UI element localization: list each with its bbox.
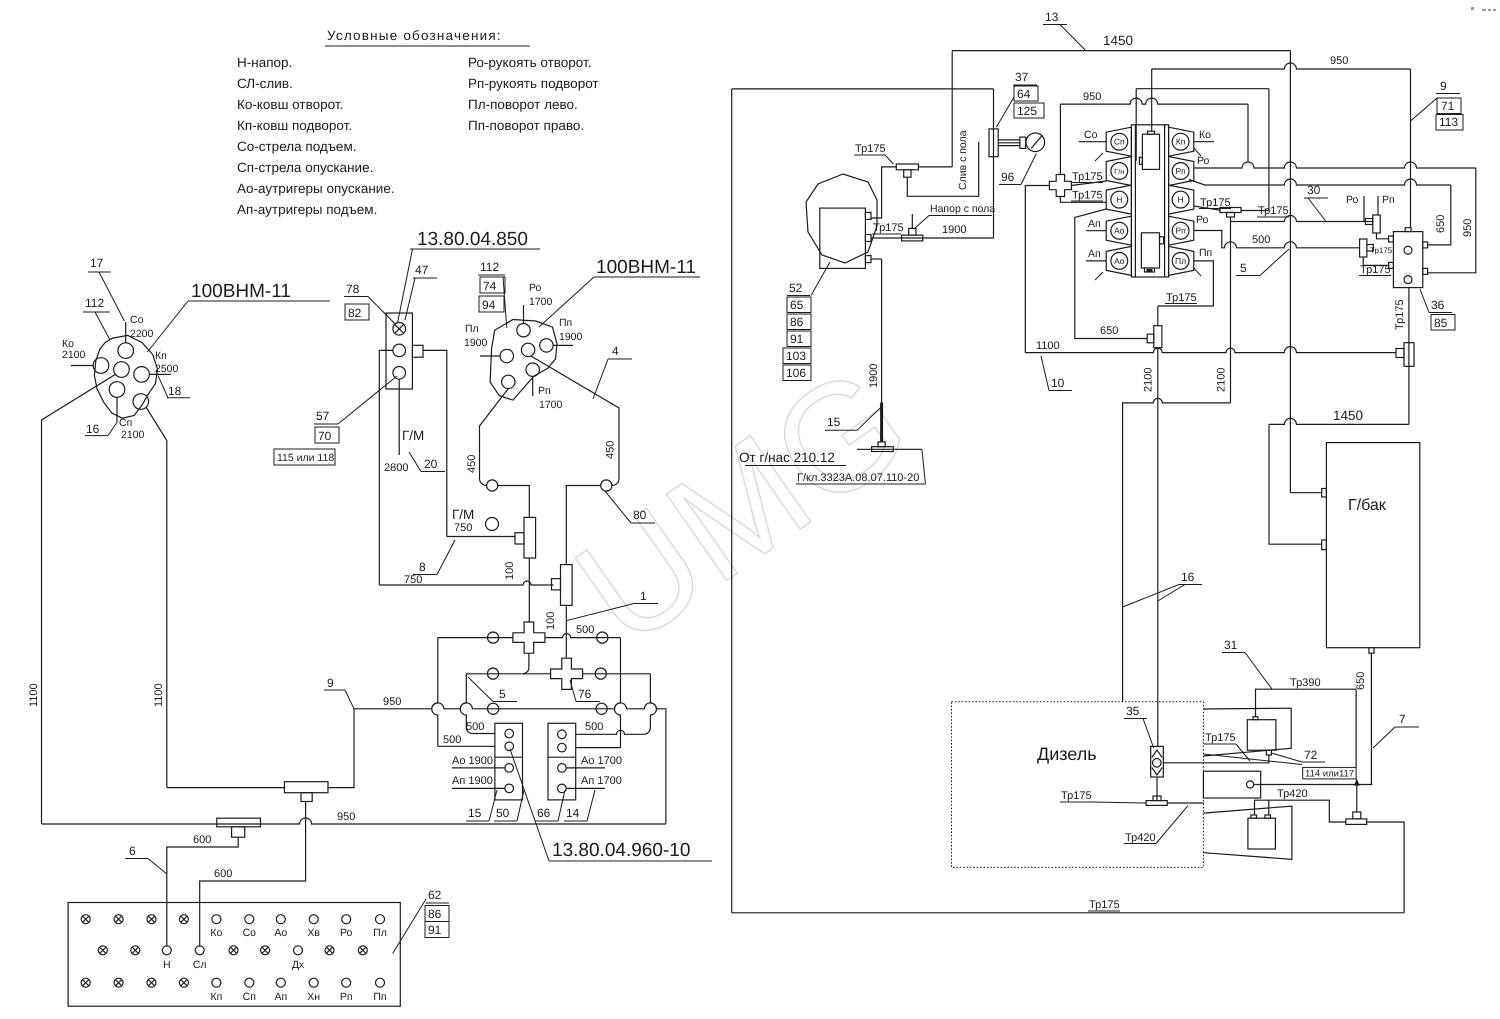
wire T4 stem to H <box>167 837 238 947</box>
svg-text:16: 16 <box>1181 570 1195 584</box>
CENTRAL MANIFOLD 100BHM <box>1025 55 1476 746</box>
wire tee to block left-low tab <box>1363 257 1388 265</box>
wire tee sliv stem U to lever <box>907 142 978 196</box>
svg-text:37: 37 <box>1015 70 1029 84</box>
valve output wire to radiator1 <box>1163 755 1269 763</box>
svg-text:Тр175: Тр175 <box>1072 171 1103 183</box>
wire От г/нас line <box>857 448 922 450</box>
wire Ао1900 <box>452 767 505 769</box>
stub Рп to tee <box>1377 196 1379 215</box>
svg-text:100: 100 <box>504 562 516 580</box>
wire tank top feed <box>1290 492 1321 494</box>
tee Тр175 sliv <box>896 164 918 170</box>
wire T1 down to cross1 <box>528 558 530 622</box>
svg-text:62: 62 <box>428 888 442 902</box>
svg-text:Ро: Ро <box>529 282 542 294</box>
watermark UMG <box>547 333 937 678</box>
panel row1 crossed sockets <box>81 915 90 924</box>
svg-text:36: 36 <box>1431 298 1445 312</box>
wire Ап1700 <box>566 787 605 789</box>
svg-text:Ап: Ап <box>274 991 287 1003</box>
wire 221.5-line Тр175 <box>1231 216 1373 222</box>
svg-text:Сп: Сп <box>243 991 256 1003</box>
valve crossed port <box>393 323 406 336</box>
manifold left wing Сп <box>1106 127 1131 156</box>
riser D to 1900-line <box>993 89 995 238</box>
svg-text:Пл: Пл <box>1175 256 1186 266</box>
svg-text:76: 76 <box>578 687 592 701</box>
stub Ро <box>523 305 525 324</box>
tee Тр175 right <box>1360 239 1367 257</box>
radiator2 <box>1248 818 1276 849</box>
block 36 <box>1393 232 1422 288</box>
panel row3 crossed sockets <box>81 978 90 987</box>
svg-text:114 или117: 114 или117 <box>1305 769 1354 780</box>
riser 1290.4 main <box>1289 51 1291 493</box>
wire tee right to corner riser <box>1367 822 1404 913</box>
svg-text:Ко: Ко <box>210 927 222 939</box>
lever hub <box>1020 137 1026 148</box>
svg-text:Ао 1700: Ао 1700 <box>581 755 622 767</box>
wire 636-line left: cross1 to corner <box>438 637 513 639</box>
svg-text:16: 16 <box>86 422 100 436</box>
coupling circle 636 right <box>597 632 608 643</box>
tee T4 down on 824-line <box>217 818 261 827</box>
CENTER DISTRIBUTION TREE <box>324 517 666 823</box>
manifold left wing Ао <box>1106 216 1131 245</box>
svg-text:Ап 1700: Ап 1700 <box>581 775 622 787</box>
svg-text:Ро: Ро <box>1346 194 1359 206</box>
wire Ао1700 <box>566 767 605 769</box>
riser 620.5 down <box>615 638 621 748</box>
wire 1900-line pump to riser D <box>871 237 994 239</box>
riser 650.4 down with hop crossing 709 and elbow <box>644 674 657 735</box>
wire coupling to tee2 riser <box>566 486 600 565</box>
coupling circle 709 left <box>488 703 499 714</box>
right block <box>548 723 576 800</box>
wire Ап1900 <box>452 787 505 789</box>
right hand-control unit 100ВНМ-11 (blob2) <box>464 257 700 565</box>
svg-text:2800: 2800 <box>384 462 408 474</box>
svg-text:13: 13 <box>1045 10 1059 24</box>
svg-text:500: 500 <box>466 721 484 733</box>
pump housing blob <box>806 174 877 263</box>
svg-text:Тр175: Тр175 <box>1370 246 1393 255</box>
svg-text:Пл: Пл <box>465 323 479 335</box>
manifold right wing Пл <box>1169 246 1194 275</box>
svg-text:80: 80 <box>633 508 647 522</box>
coupling circle left <box>487 480 498 491</box>
svg-text:Г/кл.3323А.08.07.110-20: Г/кл.3323А.08.07.110-20 <box>797 472 919 484</box>
wire 88.7 header right <box>1136 88 1269 90</box>
blob1 body <box>94 335 157 418</box>
blob2 port center <box>521 343 534 356</box>
svg-text:От г/нас 210.12: От г/нас 210.12 <box>739 450 835 465</box>
right block port2 <box>558 743 567 752</box>
left hand-control unit 100ВНМ-11 (blob1) <box>28 256 330 824</box>
wing tick marks <box>1095 153 1103 161</box>
svg-text:950: 950 <box>383 696 401 708</box>
wire to tee1 <box>447 536 515 538</box>
svg-text:950: 950 <box>1330 55 1348 67</box>
svg-text:Кп: Кп <box>155 350 167 362</box>
svg-text:СЛ-слив.: СЛ-слив. <box>237 76 293 91</box>
wire tee sliv left then down to pump tab1 <box>871 167 896 218</box>
valve port 3 <box>393 367 406 380</box>
wire 88.9 header left <box>732 88 994 90</box>
blob2 port Пп right <box>540 339 553 352</box>
wire Пп circuit <box>1158 261 1214 306</box>
manifold right wing Кп <box>1169 127 1194 156</box>
svg-text:35: 35 <box>1126 704 1140 718</box>
svg-text:Условные обозначения:: Условные обозначения: <box>327 28 502 43</box>
svg-text:94: 94 <box>482 298 496 312</box>
riser cap top to 69 header <box>1151 69 1153 131</box>
svg-text:71: 71 <box>1441 99 1455 113</box>
svg-text:72: 72 <box>1304 748 1318 762</box>
manifold left wing Н <box>1106 185 1131 214</box>
svg-text:650: 650 <box>1355 672 1367 690</box>
tee T2 <box>561 565 573 606</box>
wire blob2 left-bottom down <box>479 389 508 486</box>
svg-text:47: 47 <box>415 263 429 277</box>
stub Пл <box>480 355 500 357</box>
coupling circle 636 left <box>488 632 499 643</box>
OUTRIGGER MANIFOLD BLOCKS 13.80.04.960-10 <box>452 723 712 861</box>
svg-text:650: 650 <box>1435 215 1447 233</box>
stub Ап label low <box>1086 260 1106 262</box>
svg-text:57: 57 <box>316 409 330 423</box>
svg-text:2100: 2100 <box>1216 368 1228 392</box>
svg-text:14: 14 <box>566 806 580 820</box>
svg-text:Со: Со <box>243 927 257 939</box>
manifold left wing Ао <box>1106 246 1131 275</box>
right block port4 <box>558 784 567 793</box>
wire blob1 to right 1100 riser <box>146 407 167 788</box>
blob1 port Сп <box>109 382 125 398</box>
pump tab3 <box>865 256 871 263</box>
svg-text:Сп: Сп <box>119 417 132 429</box>
svg-text:950: 950 <box>1462 219 1474 237</box>
riser tank drain 650 <box>1370 653 1372 784</box>
stub Ко label <box>1194 141 1214 143</box>
svg-text:Г/бак: Г/бак <box>1348 497 1387 514</box>
wire 1450 top line <box>952 50 1290 52</box>
tank port tabs <box>1322 489 1327 498</box>
svg-text:Н-напор.: Н-напор. <box>237 55 292 70</box>
wire tee R3 to 1268.9 riser <box>1241 210 1269 212</box>
radiator2 feed 2 <box>1268 800 1270 815</box>
svg-text:115 или 118: 115 или 118 <box>277 452 334 464</box>
svg-text:91: 91 <box>428 923 442 937</box>
svg-text:750: 750 <box>404 574 422 586</box>
wire R2-b line <box>1189 179 1451 185</box>
svg-text:2500: 2500 <box>155 363 179 375</box>
coupling circle on ГМ line <box>486 518 499 531</box>
svg-text:1: 1 <box>640 589 647 603</box>
BOTTOM FEED LINES AND PANEL <box>42 709 666 1006</box>
cross X3 <box>1049 175 1071 197</box>
svg-text:1900: 1900 <box>868 364 880 388</box>
lever knob <box>1026 133 1045 152</box>
cross X1 <box>513 622 545 653</box>
spool bottom <box>1141 233 1159 268</box>
svg-text:Рп: Рп <box>1382 194 1395 206</box>
svg-text:1450: 1450 <box>1333 408 1363 423</box>
svg-text:Ао: Ао <box>1114 256 1125 266</box>
blob2 port Пл left <box>500 349 513 362</box>
Дизель dotted box <box>952 702 1204 868</box>
riser 1475.8 to block right-low tab <box>1428 168 1476 273</box>
wire cross right arm to ГН wing <box>1071 181 1106 186</box>
radiator2 belt <box>1203 806 1292 859</box>
svg-text:600: 600 <box>214 868 232 880</box>
coupling circle 709 right <box>596 703 607 714</box>
wire R4 500-line <box>1194 231 1360 248</box>
svg-text:65: 65 <box>790 298 804 312</box>
tee on 1100 right <box>1404 343 1414 367</box>
blob1 port center <box>114 362 130 378</box>
riser 466.3 down with hop crossing 709 <box>460 674 472 734</box>
tee T3 down on 788-line <box>284 782 328 793</box>
svg-text:1900: 1900 <box>942 224 966 236</box>
svg-text:Кп: Кп <box>210 991 222 1003</box>
svg-text:Слив с пола: Слив с пола <box>957 130 969 190</box>
svg-text:Кп: Кп <box>1176 137 1186 147</box>
svg-text:82: 82 <box>348 306 362 320</box>
riser 1230.5 down <box>1230 217 1232 403</box>
stub Пп <box>553 344 573 346</box>
svg-text:2100: 2100 <box>121 429 145 441</box>
blob1 port Ко <box>93 358 109 374</box>
svg-text:10: 10 <box>1051 376 1065 390</box>
svg-text:500: 500 <box>443 734 461 746</box>
riser cross top to 104 header <box>1059 104 1061 174</box>
wire T3 stem down crossing 824 <box>200 801 306 947</box>
svg-text:15: 15 <box>827 415 841 429</box>
riser 1268.9 down to H-return <box>1268 89 1270 211</box>
svg-text:18: 18 <box>168 384 182 398</box>
svg-text:6: 6 <box>129 844 136 858</box>
blob1 port Кп <box>134 367 150 383</box>
wire 674-line right: cross2 to corner <box>583 673 651 675</box>
coupling circle 674 right <box>595 668 606 679</box>
wire coupling to tee1 riser <box>498 486 530 518</box>
svg-text:7: 7 <box>1399 712 1406 726</box>
wire tee sliv right to riser <box>918 166 952 168</box>
svg-text:Пп-поворот право.: Пп-поворот право. <box>468 118 584 133</box>
svg-text:950: 950 <box>337 811 355 823</box>
stub Со label <box>1079 141 1106 143</box>
svg-text:Тр390: Тр390 <box>1290 677 1321 689</box>
svg-text:Ап-аутригеры подъем.: Ап-аутригеры подъем. <box>237 202 377 217</box>
svg-text:Пл: Пл <box>373 927 387 939</box>
svg-text:Сп-стрела опускание.: Сп-стрела опускание. <box>237 160 373 175</box>
left block port2 <box>505 742 514 751</box>
svg-text:Г/М: Г/М <box>402 428 424 443</box>
wire valve to tee <box>1156 777 1158 801</box>
svg-text:Со: Со <box>1084 129 1098 141</box>
svg-text:Дх: Дх <box>292 959 305 971</box>
svg-text:1450: 1450 <box>1103 33 1133 48</box>
svg-text:450: 450 <box>466 455 478 473</box>
svg-text:Хн: Хн <box>307 991 320 1003</box>
blob2 body <box>490 320 557 401</box>
tee Тр420 <box>1346 819 1367 825</box>
svg-text:100ВНМ-11: 100ВНМ-11 <box>596 257 696 278</box>
svg-text:Ро: Ро <box>340 927 353 939</box>
svg-text:Кп-ковш подворот.: Кп-ковш подворот. <box>237 118 352 133</box>
svg-text:Рп: Рп <box>538 385 551 397</box>
right block port3 <box>558 764 567 773</box>
tee Напор up <box>902 235 923 241</box>
console lever mount <box>989 129 998 157</box>
svg-text:100ВНМ-11: 100ВНМ-11 <box>191 281 291 302</box>
svg-text:500: 500 <box>576 624 594 636</box>
connector panel <box>68 903 400 1007</box>
svg-text:Ао 1900: Ао 1900 <box>452 755 493 767</box>
thick hose segment <box>880 403 883 443</box>
lever shaft <box>998 139 1020 141</box>
svg-text:20: 20 <box>424 457 438 471</box>
svg-text:85: 85 <box>1434 316 1448 330</box>
label 114 или117 boxed <box>1303 767 1356 779</box>
blob1 port right-bottom <box>133 394 149 410</box>
svg-text:112: 112 <box>480 260 499 274</box>
svg-text:Ап: Ап <box>1088 218 1101 230</box>
svg-text:Сл: Сл <box>193 959 207 971</box>
svg-text:1900: 1900 <box>464 337 488 349</box>
svg-text:66: 66 <box>537 806 551 820</box>
riser 1408.9 block to 1450 line <box>1408 288 1410 425</box>
wire cross1 stem elbow to 674-line <box>523 653 529 673</box>
manifold right wing Рп <box>1169 157 1194 186</box>
tee 650 <box>1154 326 1162 348</box>
svg-text:1700: 1700 <box>539 399 563 411</box>
wire 1100-line <box>1025 347 1396 353</box>
svg-text:Рп-рукоять подворот: Рп-рукоять подворот <box>468 76 599 91</box>
wire 1450-line #2 <box>1269 418 1409 424</box>
svg-text:Тр175: Тр175 <box>1360 264 1391 276</box>
riser 1410.5 from 69 to block top <box>1410 69 1412 228</box>
wire to left block port2 <box>438 745 495 747</box>
left block port4 <box>505 784 514 793</box>
svg-text:17: 17 <box>90 256 104 270</box>
blob2 port bottom-left <box>502 375 515 388</box>
wire to right block port2 <box>576 747 620 749</box>
svg-text:2200: 2200 <box>130 328 154 340</box>
svg-text:Напор с пола: Напор с пола <box>930 203 995 215</box>
svg-text:Н: Н <box>163 959 171 971</box>
svg-text:Г/н: Г/н <box>1114 167 1124 176</box>
svg-text:Тр175: Тр175 <box>855 143 886 155</box>
left block port3 <box>505 764 514 773</box>
wire tank second feed <box>1269 424 1322 544</box>
wire 674-line left segment <box>466 673 523 675</box>
wire cooler to riser <box>1254 784 1373 786</box>
tee under valve <box>1146 801 1167 806</box>
svg-text:Ко-ковш отворот.: Ко-ковш отворот. <box>237 97 343 112</box>
svg-text:Тр175: Тр175 <box>1089 899 1120 911</box>
arrow up on junction <box>1354 779 1360 786</box>
DIESEL ENGINE GROUP <box>952 638 1405 913</box>
svg-text:100: 100 <box>545 612 557 630</box>
svg-text:91: 91 <box>790 332 804 346</box>
left border riser <box>731 89 733 913</box>
svg-text:600: 600 <box>193 834 211 846</box>
svg-text:Тр175: Тр175 <box>1072 190 1103 202</box>
riser 437.8 down <box>432 638 438 747</box>
wire 709-line (950) <box>354 703 666 824</box>
RIGHT HALF: SUPPLY AND RETURN <box>732 10 1404 913</box>
left block port1 <box>505 729 514 738</box>
svg-text:Тр420: Тр420 <box>1125 832 1156 844</box>
spool top <box>1142 134 1159 169</box>
tee T1 <box>524 517 536 558</box>
svg-text:70: 70 <box>318 429 332 443</box>
svg-text:4: 4 <box>612 344 619 358</box>
wire valve port2 left down <box>379 350 393 585</box>
oil cooler <box>1203 771 1260 798</box>
svg-text:Со: Со <box>130 314 144 326</box>
svg-text:650: 650 <box>1100 325 1118 337</box>
svg-text:1900: 1900 <box>559 331 583 343</box>
wire pump tab3 down to gear pump tee <box>871 258 882 260</box>
svg-text:112: 112 <box>85 296 104 310</box>
svg-text:74: 74 <box>483 279 497 293</box>
svg-text:113: 113 <box>1439 115 1458 129</box>
cross X2 <box>551 658 583 689</box>
panel row1 plain sockets <box>212 915 221 924</box>
svg-text:Пп: Пп <box>559 317 572 329</box>
svg-text:500: 500 <box>1252 234 1270 246</box>
wire Ро-R2 line to right <box>1194 162 1476 168</box>
svg-text:450: 450 <box>605 441 617 459</box>
blob2 port Ро top <box>517 324 530 337</box>
stub above tee <box>911 214 913 228</box>
wire 636-line right: cross1 to corner with hop <box>545 634 621 638</box>
riser 1450.8 to block right-top tab <box>1428 185 1451 245</box>
wire cross left arm to 1100 riser <box>1025 186 1049 353</box>
wire blob1 to left 1100 riser <box>42 374 117 824</box>
svg-text:Со-стрела подъем.: Со-стрела подъем. <box>237 139 356 154</box>
wire 824-line (950) <box>42 818 666 824</box>
svg-text:9: 9 <box>327 676 334 690</box>
svg-text:64: 64 <box>1017 87 1031 101</box>
svg-text:52: 52 <box>789 281 803 295</box>
svg-text:Ао-аутригеры опускание.: Ао-аутригеры опускание. <box>237 181 395 196</box>
svg-text:Рп: Рп <box>1175 166 1186 176</box>
svg-text:500: 500 <box>585 721 603 733</box>
wire T2 down to cross2 <box>565 605 567 658</box>
manifold body walls <box>1131 125 1168 277</box>
coupling circle 674 left <box>487 668 498 679</box>
wire bottom Тр175 line <box>732 912 1404 914</box>
svg-text:1100: 1100 <box>28 683 40 707</box>
svg-text:8: 8 <box>419 560 426 574</box>
svg-text:Рп: Рп <box>340 991 353 1003</box>
svg-text:Тр175: Тр175 <box>1258 205 1289 217</box>
wire valve port3 down <box>398 379 400 455</box>
manifold right wing Рп <box>1169 216 1194 245</box>
corner marks top right <box>1471 7 1496 11</box>
wire corner riser 952 <box>951 51 953 167</box>
svg-text:Ап: Ап <box>1088 248 1101 260</box>
svg-text:2100: 2100 <box>1143 368 1155 392</box>
wire 402.9 link <box>1123 398 1231 701</box>
svg-text:1100: 1100 <box>153 683 165 707</box>
stub Ко <box>71 365 93 367</box>
